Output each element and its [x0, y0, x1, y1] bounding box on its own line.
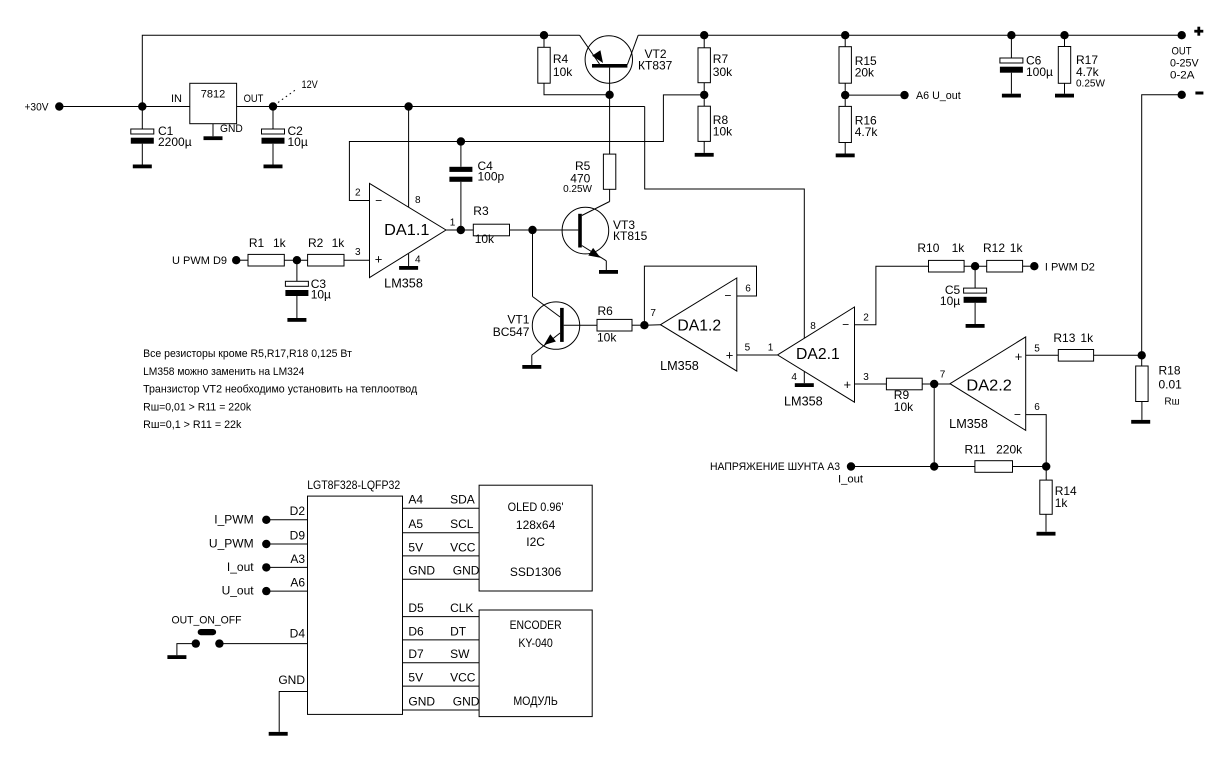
resistor R15 — [839, 35, 877, 95]
svg-text:30k: 30k — [713, 65, 733, 79]
svg-text:GND: GND — [278, 673, 305, 687]
node U_out terminal (pin A6) — [222, 576, 308, 598]
svg-text:R1: R1 — [249, 236, 265, 250]
wire DA2.2 pin 5 to R13 — [1026, 354, 1059, 356]
svg-text:4.7k: 4.7k — [855, 125, 879, 139]
wire DA2.2 output node to shunt sense line — [933, 384, 935, 467]
ground C1 — [133, 165, 152, 169]
node +30V input terminal — [25, 101, 64, 113]
wire VT1 collector riser — [533, 230, 561, 317]
op-amp DA2.1 — [778, 307, 870, 408]
junction R3/VT3/VT1 node — [528, 226, 536, 234]
ground R17 — [1055, 94, 1074, 98]
capacitor C6 — [1000, 35, 1053, 93]
wire +30V input to 7812 IN — [64, 106, 190, 108]
resistor R11 — [965, 443, 1024, 473]
svg-text:4.7k: 4.7k — [1076, 65, 1100, 79]
wire DA2.2 pin 6 to R11/R14 node — [1026, 415, 1047, 467]
display OLED SSD1306 — [479, 485, 592, 591]
junction DA1.1 output node — [457, 226, 465, 234]
node U_PWM terminal (pin D9) — [209, 528, 308, 550]
svg-text:R11: R11 — [965, 443, 986, 457]
svg-text:D4: D4 — [290, 627, 306, 641]
ground switch — [167, 655, 186, 659]
svg-text:I PWM D2: I PWM D2 — [1045, 262, 1095, 274]
svg-text:5: 5 — [745, 342, 751, 353]
svg-text:2: 2 — [863, 312, 869, 323]
wire DA1.1 pin 8 supply riser — [408, 107, 410, 208]
svg-text:U PWM D9: U PWM D9 — [172, 255, 227, 267]
wire top rail (right segment, regulated output) — [638, 34, 1181, 36]
junction C6 node — [1007, 31, 1015, 39]
MCU U2 LGT8F328-LQFP32 — [307, 478, 402, 715]
node A6 U_out tap — [845, 90, 961, 102]
resistor R2 — [308, 236, 346, 266]
svg-text:3: 3 — [863, 372, 869, 383]
node I PWM D2 terminal — [1023, 262, 1095, 274]
ground C5 — [966, 324, 985, 328]
svg-text:0.01: 0.01 — [1159, 377, 1183, 391]
ground R14 — [1037, 532, 1056, 536]
svg-text:A6: A6 — [290, 576, 305, 590]
svg-text:U_out: U_out — [222, 583, 255, 597]
svg-text:КТ815: КТ815 — [613, 229, 648, 243]
junction R7/R8 divider node — [700, 91, 708, 99]
ground DA1.1 pin 4 — [399, 254, 418, 270]
svg-text:1k: 1k — [1055, 496, 1069, 510]
note text block — [143, 348, 418, 431]
svg-text:+: + — [375, 252, 383, 267]
node OUT+ terminal — [1170, 27, 1203, 82]
node I_out terminal (pin A3) — [227, 552, 308, 574]
ground C6 — [1002, 94, 1021, 98]
transistor VT1 BC547 — [493, 302, 597, 365]
svg-text:6: 6 — [745, 284, 751, 295]
wire MCU pin D5 to CLK — [403, 601, 480, 617]
junction VT2 base node — [605, 91, 613, 99]
svg-text:U_PWM: U_PWM — [209, 537, 254, 551]
svg-text:DT: DT — [450, 624, 467, 638]
svg-text:0-25V: 0-25V — [1170, 57, 1199, 69]
wire R4 bottom to VT2 base node — [544, 83, 610, 95]
svg-text:IN: IN — [171, 93, 182, 105]
svg-text:5V: 5V — [408, 540, 423, 554]
label 12V net — [278, 79, 318, 103]
svg-text:1k: 1k — [1080, 331, 1094, 345]
transistor VT2 KT837 — [580, 35, 673, 95]
resistor R1 — [248, 236, 287, 266]
wire DA1.2 pin 6 feedback loop — [644, 266, 756, 325]
wire U PWM D9 to R1 — [240, 259, 248, 261]
svg-text:D6: D6 — [408, 624, 424, 638]
svg-text:8: 8 — [415, 195, 421, 206]
wire MCU pin 5V to VCC — [403, 671, 480, 687]
wire MCU pin D7 to SW — [403, 647, 480, 663]
svg-text:5V: 5V — [408, 671, 423, 685]
switch OUT_ON_OFF — [172, 615, 308, 648]
svg-text:1: 1 — [450, 218, 456, 229]
junction C4 top node — [457, 137, 465, 145]
svg-text:R4: R4 — [553, 52, 569, 66]
svg-text:7: 7 — [650, 308, 656, 319]
svg-text:I2C: I2C — [526, 535, 545, 549]
svg-text:220k: 220k — [996, 443, 1023, 457]
op-amp DA2.2 — [940, 337, 1040, 431]
ground 7812 GND pin — [204, 124, 223, 140]
wire MCU pin A5 to SCL — [403, 517, 480, 533]
wire R3 to VT3 base — [510, 229, 579, 231]
svg-text:10k: 10k — [597, 330, 617, 344]
wire MCU GND pin — [278, 673, 307, 732]
svg-text:4: 4 — [415, 255, 421, 266]
svg-text:10µ: 10µ — [288, 135, 308, 149]
wire R9 to DA2.2 output node — [922, 383, 950, 385]
svg-text:KY-040: KY-040 — [518, 636, 553, 650]
svg-text:R13: R13 — [1053, 331, 1075, 345]
svg-text:OUT: OUT — [244, 93, 264, 105]
svg-text:1k: 1k — [332, 236, 346, 250]
svg-text:6: 6 — [1034, 402, 1040, 413]
svg-text:DA1.1: DA1.1 — [384, 222, 429, 239]
wire OUT- down to R18/R13 node — [1142, 95, 1182, 356]
svg-text:DA2.2: DA2.2 — [966, 377, 1012, 394]
wire DA2.1 pin 3 to R9 — [855, 383, 887, 385]
wire R1 to R2 with C3 tap — [284, 259, 307, 261]
svg-text:GND: GND — [220, 123, 243, 135]
resistor R9 — [886, 378, 922, 414]
svg-text:SSD1306: SSD1306 — [510, 565, 562, 579]
wire DA1.1 output to R3 — [446, 229, 473, 231]
junction DA2.2 output node — [930, 380, 938, 388]
svg-text:Транзистор VT2 необходимо уста: Транзистор VT2 необходимо установить на … — [143, 384, 418, 396]
svg-text:GND: GND — [453, 694, 480, 708]
svg-text:10k: 10k — [894, 400, 914, 414]
svg-text:0-2A: 0-2A — [1170, 69, 1195, 81]
svg-text:GND: GND — [453, 564, 480, 578]
wire DA2.1 pin 2 to R10 — [855, 266, 929, 325]
ground DA2.1 pin 4 — [795, 372, 814, 387]
wire 7812 OUT 12V rail — [237, 106, 645, 108]
wire DA1.2 pin 5 to DA2.1 pin 1 — [737, 354, 778, 356]
svg-text:SW: SW — [450, 647, 470, 661]
svg-text:I_PWM: I_PWM — [214, 512, 253, 526]
ground R18 — [1131, 420, 1150, 424]
svg-text:−: − — [1014, 407, 1021, 421]
node I_PWM terminal (pin D2) — [214, 504, 307, 526]
svg-text:R18: R18 — [1159, 364, 1181, 378]
svg-text:Все резисторы кроме R5,R17,R18: Все резисторы кроме R5,R17,R18 0,125 Вт — [143, 348, 352, 360]
svg-text:BC547: BC547 — [493, 325, 530, 339]
resistor R3 — [473, 204, 509, 246]
capacitor C1 — [131, 107, 192, 165]
svg-text:R12: R12 — [983, 241, 1005, 255]
ground R8 — [695, 153, 714, 157]
svg-text:A3: A3 — [290, 552, 305, 566]
svg-text:+30V: +30V — [25, 101, 50, 113]
resistor R6 — [597, 304, 644, 344]
wire MCU pin D6 to DT — [403, 624, 480, 640]
svg-text:МОДУЛЬ: МОДУЛЬ — [513, 694, 558, 708]
wire MCU pin GND to GND — [403, 694, 480, 710]
svg-text:OUT_ON_OFF: OUT_ON_OFF — [172, 615, 242, 627]
svg-text:LM358: LM358 — [784, 394, 823, 408]
junction R15/R16 divider node — [841, 91, 849, 99]
ground C2 — [264, 165, 283, 169]
svg-text:I_out: I_out — [227, 560, 254, 574]
svg-text:10µ: 10µ — [940, 294, 960, 308]
op-amp DA1.2 — [644, 278, 773, 373]
junction R11 left node — [930, 462, 938, 470]
resistor R5 — [563, 95, 616, 195]
svg-text:A6 U_out: A6 U_out — [916, 90, 961, 102]
svg-text:GND: GND — [408, 694, 435, 708]
capacitor C3 — [285, 260, 331, 318]
svg-text:LGT8F328-LQFP32: LGT8F328-LQFP32 — [307, 478, 400, 492]
svg-text:7812: 7812 — [201, 89, 226, 101]
svg-text:КТ837: КТ837 — [638, 59, 673, 73]
wire MCU pin A4 to SDA — [403, 493, 480, 509]
junction C1/+30V rail node — [138, 102, 146, 110]
ground C3 — [287, 318, 306, 322]
svg-text:4: 4 — [791, 372, 797, 383]
ground VT3 emitter — [599, 270, 618, 274]
svg-text:3: 3 — [355, 247, 361, 258]
svg-text:LM358: LM358 — [949, 417, 988, 431]
svg-text:10k: 10k — [713, 124, 733, 138]
capacitor C4 — [449, 142, 504, 231]
svg-text:1k: 1k — [273, 236, 287, 250]
junction DA1.1 pin 8 on 12V rail — [404, 102, 412, 110]
ground MCU — [269, 732, 288, 736]
node shunt voltage A3 terminal (I_out) — [710, 461, 863, 485]
ground R16 — [836, 154, 855, 158]
junction C2 node — [269, 102, 277, 110]
svg-text:R6: R6 — [598, 304, 614, 318]
svg-text:OUT: OUT — [1172, 46, 1192, 58]
regulator 7812 — [171, 83, 264, 135]
svg-text:LM358: LM358 — [384, 277, 423, 291]
svg-text:10k: 10k — [475, 232, 495, 246]
svg-text:10µ: 10µ — [311, 288, 331, 302]
svg-text:OLED 0.96': OLED 0.96' — [508, 500, 564, 514]
svg-text:A4: A4 — [408, 493, 423, 507]
svg-text:I_out: I_out — [838, 473, 863, 485]
svg-text:1k: 1k — [1010, 241, 1024, 255]
transistor VT3 KT815 — [562, 189, 648, 270]
svg-text:НАПРЯЖЕНИЕ ШУНТА А3: НАПРЯЖЕНИЕ ШУНТА А3 — [710, 461, 840, 473]
svg-text:100p: 100p — [478, 170, 505, 184]
svg-text:10k: 10k — [553, 65, 573, 79]
junction R13/R18/OUT- node — [1138, 351, 1146, 359]
junction R10/R12/C5 node — [964, 262, 987, 270]
resistor R8 — [698, 95, 733, 153]
svg-text:20k: 20k — [855, 65, 875, 79]
svg-text:R2: R2 — [308, 236, 324, 250]
svg-text:LM358: LM358 — [660, 359, 699, 373]
svg-text:D5: D5 — [408, 601, 424, 615]
node U PWM D9 terminal — [172, 255, 240, 267]
svg-text:Rш=0,01 > R11 = 220k: Rш=0,01 > R11 = 220k — [143, 401, 251, 413]
svg-text:R3: R3 — [473, 204, 489, 218]
svg-text:1k: 1k — [952, 241, 966, 255]
svg-text:SCL: SCL — [450, 517, 474, 531]
capacitor C2 — [262, 107, 308, 165]
svg-text:128x64: 128x64 — [516, 518, 556, 532]
junction R4 top node — [540, 31, 548, 39]
svg-text:DA1.2: DA1.2 — [677, 318, 721, 335]
wire R13 to R18 node — [1094, 354, 1142, 356]
resistor R17 — [1058, 35, 1105, 93]
resistor R12 — [983, 241, 1023, 272]
svg-text:+: + — [1015, 349, 1023, 364]
ground VT1 emitter — [522, 365, 541, 369]
junction DA1.2 output node — [640, 321, 648, 329]
svg-text:−: − — [375, 194, 382, 208]
wire shunt terminal to R11 — [855, 466, 975, 468]
svg-text:LM358 можно заменить на LM324: LM358 можно заменить на LM324 — [143, 366, 304, 378]
svg-text:Rш=0,1 > R11 = 22k: Rш=0,1 > R11 = 22k — [143, 419, 242, 431]
svg-text:+: + — [726, 348, 734, 363]
junction R11/R14 node — [1042, 462, 1050, 470]
wire R11 to R14 node — [1013, 466, 1047, 468]
svg-text:1: 1 — [768, 342, 774, 353]
capacitor C5 — [940, 266, 987, 324]
svg-text:GND: GND — [408, 564, 435, 578]
svg-text:0.25W: 0.25W — [563, 184, 592, 195]
svg-text:CLK: CLK — [450, 601, 473, 615]
resistor R14 — [1040, 467, 1077, 532]
node OUT- terminal — [1178, 91, 1204, 99]
svg-text:D9: D9 — [290, 528, 306, 542]
encoder KY-040 — [479, 610, 592, 717]
resistor R7 — [698, 35, 733, 95]
wire MCU pin 5V to VCC — [403, 540, 480, 556]
op-amp DA1.1 — [355, 183, 456, 290]
junction R17 top node — [1060, 31, 1068, 39]
svg-text:12V: 12V — [302, 79, 319, 91]
svg-text:Rш: Rш — [1164, 397, 1179, 408]
junction R1/R2/C3 node — [293, 256, 301, 264]
svg-text:D7: D7 — [408, 647, 424, 661]
svg-text:VCC: VCC — [450, 671, 476, 685]
wire switch to ground — [177, 644, 196, 656]
svg-text:5: 5 — [1034, 343, 1040, 354]
wire DA2.1 pin 8 supply from 12V rail — [645, 107, 805, 339]
wire +30V rail riser and top rail (left segment) — [142, 35, 579, 106]
junction R7 top node — [700, 31, 708, 39]
svg-text:+: + — [844, 377, 852, 392]
svg-text:A5: A5 — [408, 517, 423, 531]
resistor R13 — [1053, 331, 1094, 361]
svg-text:0.25W: 0.25W — [1076, 79, 1105, 90]
svg-text:R10: R10 — [917, 241, 939, 255]
resistor R18 (Rsh) — [1136, 355, 1182, 420]
svg-text:7: 7 — [940, 369, 946, 380]
svg-text:SDA: SDA — [450, 493, 475, 507]
resistor R10 — [917, 241, 965, 272]
svg-text:100µ: 100µ — [1026, 65, 1053, 79]
svg-text:−: − — [842, 317, 849, 331]
svg-text:ENCODER: ENCODER — [510, 618, 562, 632]
resistor R4 — [538, 35, 573, 83]
svg-text:2: 2 — [355, 188, 361, 199]
svg-text:8: 8 — [810, 321, 816, 332]
svg-text:DA2.1: DA2.1 — [796, 346, 840, 363]
svg-text:VCC: VCC — [450, 540, 476, 554]
wire DA1.1 pin 2 to R7/R8 node (with C4 tap) — [349, 95, 704, 201]
svg-text:2200µ: 2200µ — [158, 135, 192, 149]
svg-text:−: − — [724, 289, 731, 303]
wire MCU pin GND to GND — [403, 564, 480, 580]
junction R15 top node — [841, 31, 849, 39]
wire R2 to DA1.1 pin 3 (+) — [344, 259, 370, 261]
resistor R16 — [839, 95, 878, 153]
svg-text:D2: D2 — [290, 504, 306, 518]
